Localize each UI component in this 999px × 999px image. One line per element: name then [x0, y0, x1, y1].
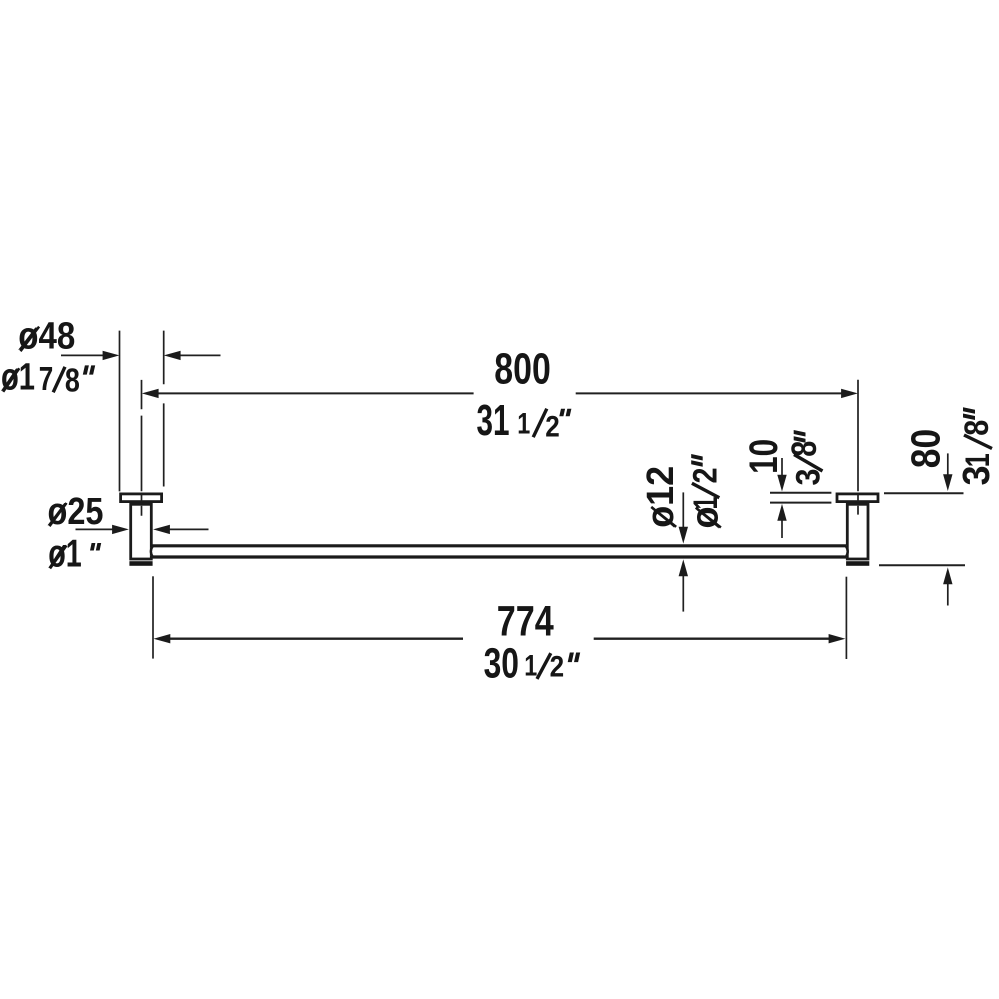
- svg-text:2: 2: [687, 468, 725, 484]
- 10 lower arrow: [781, 518, 783, 538]
- svg-text:ø12: ø12: [640, 466, 682, 528]
- label 3/8 inch (rotated): [785, 430, 828, 486]
- left post center line: [141, 380, 143, 516]
- right wall flange: [837, 494, 878, 502]
- label 10 (rotated): [742, 439, 786, 474]
- dimension line 774 left segment: [161, 638, 463, 640]
- o25 dimension arrow right: [167, 528, 209, 530]
- 80 upper arrow: [947, 453, 949, 475]
- 80 extension line top: [884, 492, 964, 494]
- o48 dimension arrow right: [176, 354, 221, 356]
- svg-text:7: 7: [39, 360, 54, 397]
- dimension line 800 right segment: [576, 392, 850, 394]
- svg-text:1: 1: [959, 453, 997, 467]
- right junction erase: [845, 547, 848, 556]
- 10 upper arrow: [781, 458, 783, 478]
- svg-text:30: 30: [484, 639, 519, 687]
- label 80 (rotated): [902, 429, 948, 469]
- 10 extension line top: [770, 492, 831, 494]
- svg-text:2: 2: [545, 410, 560, 443]
- svg-text:31: 31: [477, 397, 510, 445]
- left post end cap: [129, 561, 152, 566]
- towel bar top edge: [152, 544, 846, 547]
- 774 extension line left: [152, 576, 154, 658]
- dimension 800 left arrowhead: [142, 389, 159, 398]
- svg-text:2: 2: [550, 650, 565, 683]
- o48 slash overlay: [21, 327, 40, 352]
- svg-text:ø1: ø1: [1, 356, 35, 398]
- extension line left (o48 left): [119, 331, 121, 492]
- svg-text:80: 80: [902, 429, 948, 469]
- left wall flange: [121, 494, 162, 502]
- svg-text:3: 3: [956, 466, 998, 486]
- towel bar bottom edge: [152, 555, 846, 558]
- right post center line: [857, 380, 859, 515]
- extension line right (o48 right): [163, 331, 165, 487]
- svg-text:ø25: ø25: [48, 491, 104, 533]
- svg-text:1: 1: [524, 650, 537, 683]
- dimension 774 right arrowhead: [829, 634, 846, 643]
- o12 lower arrow: [682, 574, 684, 612]
- right bar-post junction arc: [846, 546, 848, 557]
- towel bar fill: [152, 545, 846, 558]
- svg-text:800: 800: [494, 346, 551, 394]
- 774 extension line right: [845, 577, 847, 659]
- label o12 (rotated): [640, 466, 682, 528]
- left junction erase: [151, 547, 154, 556]
- 80 extension line bottom: [879, 564, 965, 566]
- 10 extension line bottom: [770, 502, 831, 504]
- svg-text:1: 1: [517, 407, 530, 440]
- right post body: [847, 504, 868, 559]
- svg-text:774: 774: [497, 598, 554, 646]
- svg-text:8: 8: [785, 441, 824, 457]
- dimension line 774 right segment: [594, 638, 838, 640]
- left post body: [131, 504, 152, 559]
- left bar-post junction arc: [151, 546, 153, 557]
- right post end cap: [846, 561, 869, 566]
- svg-text:8: 8: [958, 420, 996, 436]
- o48 dimension arrow left: [61, 354, 110, 356]
- o25 dimension arrow left: [76, 528, 116, 530]
- dimension 774 left arrowhead: [154, 634, 171, 643]
- dimension line 800 left segment: [150, 392, 474, 394]
- label o1/2 inch (rotated): [685, 454, 727, 529]
- svg-text:1: 1: [687, 497, 725, 510]
- svg-text:10: 10: [742, 439, 786, 474]
- 80 lower arrow: [947, 582, 949, 606]
- label 3 1/8 inch (rotated): [956, 407, 998, 485]
- svg-text:ø48: ø48: [18, 315, 75, 357]
- dimension 800 right arrowhead: [841, 389, 858, 398]
- svg-text:8: 8: [65, 362, 80, 399]
- o12 upper arrow: [682, 492, 684, 530]
- svg-text:ø1: ø1: [48, 533, 81, 576]
